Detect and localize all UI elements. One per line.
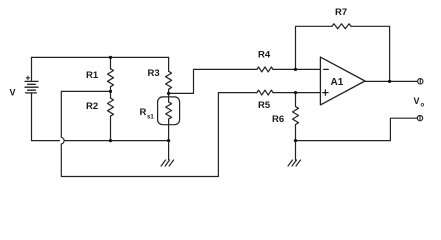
svg-text:R: R (140, 107, 147, 118)
svg-text:s1: s1 (147, 115, 154, 121)
wire battery negative down and bottom-left rail with hop (32, 93, 169, 141)
svg-text:R5: R5 (258, 100, 271, 111)
svg-text:R2: R2 (86, 101, 98, 112)
junction R2 bottom (109, 139, 112, 142)
battery V (25, 81, 38, 93)
wire R3 column top (168, 57, 170, 71)
junction R6 bottom ground node (294, 139, 297, 142)
wire R4 to inverting input (273, 68, 320, 70)
label A1 (331, 77, 344, 88)
svg-text:R1: R1 (86, 70, 99, 81)
wire left ground stem (168, 141, 170, 160)
wire R2 bottom to rail (110, 116, 112, 141)
svg-text:R7: R7 (335, 7, 347, 18)
wire top rail battery+ to R1 top and R3 top (32, 57, 169, 80)
junction output node (388, 80, 391, 83)
ground left (161, 160, 174, 166)
wire feedback right leg down to output (351, 26, 390, 81)
op-amp inverting input mark (324, 68, 329, 70)
label R5 (258, 100, 271, 111)
wire R5 to noninverting input (273, 92, 320, 94)
op-amp A1 (320, 57, 365, 105)
svg-text:o: o (421, 103, 425, 109)
label R1 (86, 70, 99, 81)
resistor R3 (166, 71, 172, 89)
resistor R1 (108, 69, 114, 87)
photoresistor Rs1 enclosure box (158, 97, 180, 125)
wire op-amp output to upper terminal (365, 80, 418, 82)
resistor R4 (257, 67, 273, 72)
label V (10, 88, 16, 98)
battery plus sign (26, 76, 30, 80)
wire bridge midpoint R1/R2 to noninverting path (left leg, bottom rail, right leg up to R5) (61, 91, 257, 176)
wire lower terminal return to ground node (296, 118, 418, 140)
junction bridge right midpoint (167, 92, 170, 95)
svg-text:A1: A1 (331, 77, 344, 88)
resistor R5 (257, 90, 273, 95)
terminal upper output (418, 79, 423, 84)
resistor R7 (332, 24, 351, 29)
wire right ground stem (295, 141, 297, 160)
junction noninverting node (294, 91, 297, 94)
wire feedback left leg up from inverting node (296, 26, 333, 69)
svg-text:R6: R6 (272, 114, 284, 125)
label R4 (258, 50, 271, 61)
terminal lower output (417, 115, 422, 120)
wire Rp bottom to rail (168, 119, 170, 141)
junction Rp bottom ground node (167, 139, 170, 142)
wire bridge midpoint R3/Rp to R4 (inverting path) (169, 69, 257, 93)
svg-text:V: V (414, 96, 420, 106)
junction inverting node (294, 68, 297, 71)
resistor R2 (108, 98, 114, 116)
resistor Rs1 element (166, 102, 172, 119)
svg-text:R4: R4 (258, 50, 271, 61)
ground right (288, 160, 301, 166)
wire R3 bottom to Rp top (168, 89, 170, 102)
label R6 (272, 114, 284, 125)
resistor R6 (293, 93, 299, 141)
junction R1 top (109, 56, 112, 59)
label R2 (86, 101, 98, 112)
svg-text:R3: R3 (148, 68, 160, 79)
label Vo (414, 96, 425, 109)
junction bridge left midpoint (109, 90, 112, 93)
label R3 (148, 68, 160, 79)
label Rs1 (140, 107, 155, 121)
label R7 (335, 7, 347, 18)
wire R1 bottom to R2 top (110, 87, 112, 98)
wire R1 column top (110, 57, 112, 68)
op-amp noninverting input mark (323, 90, 328, 95)
svg-text:V: V (10, 88, 16, 98)
